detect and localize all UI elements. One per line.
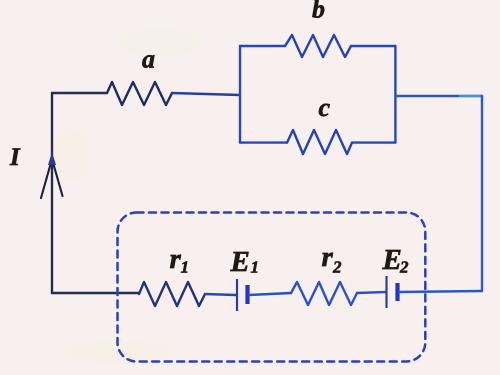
- svg-text:a: a: [142, 45, 155, 74]
- wire box right edge: [394, 46, 396, 143]
- wire box to right corner: [395, 95, 482, 97]
- wire r2 to E2: [357, 292, 386, 293]
- svg-text:I: I: [9, 144, 21, 171]
- svg-text:1: 1: [181, 258, 190, 277]
- svg-text:b: b: [312, 0, 325, 24]
- wire r1 to E1: [205, 294, 236, 295]
- wire E2 to right corner: [399, 291, 482, 292]
- wire parallel box left edge: [239, 46, 241, 143]
- current arrow wings: [41, 159, 63, 198]
- wire box bottom-left segment: [240, 141, 287, 143]
- wire a to parallel box: [172, 93, 240, 95]
- svg-text:c: c: [319, 93, 331, 122]
- current arrow head fill: [48, 152, 56, 165]
- wire E1 to r2: [249, 293, 291, 295]
- wire corner cyan accent: [460, 96, 482, 112]
- battery E2 short plate: [395, 283, 399, 301]
- wire top-left horizontal: [52, 92, 107, 94]
- battery E1 long plate: [236, 279, 238, 311]
- battery E1 short plate: [245, 285, 249, 304]
- svg-text:1: 1: [251, 258, 260, 277]
- resistor b: [285, 35, 351, 57]
- resistor c: [287, 130, 352, 154]
- svg-text:2: 2: [332, 258, 342, 277]
- wire right vertical: [481, 96, 483, 291]
- svg-text:2: 2: [399, 258, 409, 277]
- resistor a: [107, 82, 172, 105]
- resistor r2: [291, 282, 357, 305]
- wire box top-left segment: [240, 45, 285, 47]
- battery E2 long plate: [385, 276, 387, 308]
- svg-text:E: E: [382, 244, 402, 276]
- resistor r1: [139, 282, 205, 306]
- svg-text:r: r: [322, 241, 334, 273]
- wire left vertical: [51, 93, 53, 293]
- wire bottom left segment: [52, 292, 139, 294]
- wire box top-right segment: [351, 45, 395, 47]
- svg-text:E: E: [230, 246, 250, 278]
- wire box bottom-right segment: [352, 141, 395, 143]
- dashed battery box: [118, 213, 426, 362]
